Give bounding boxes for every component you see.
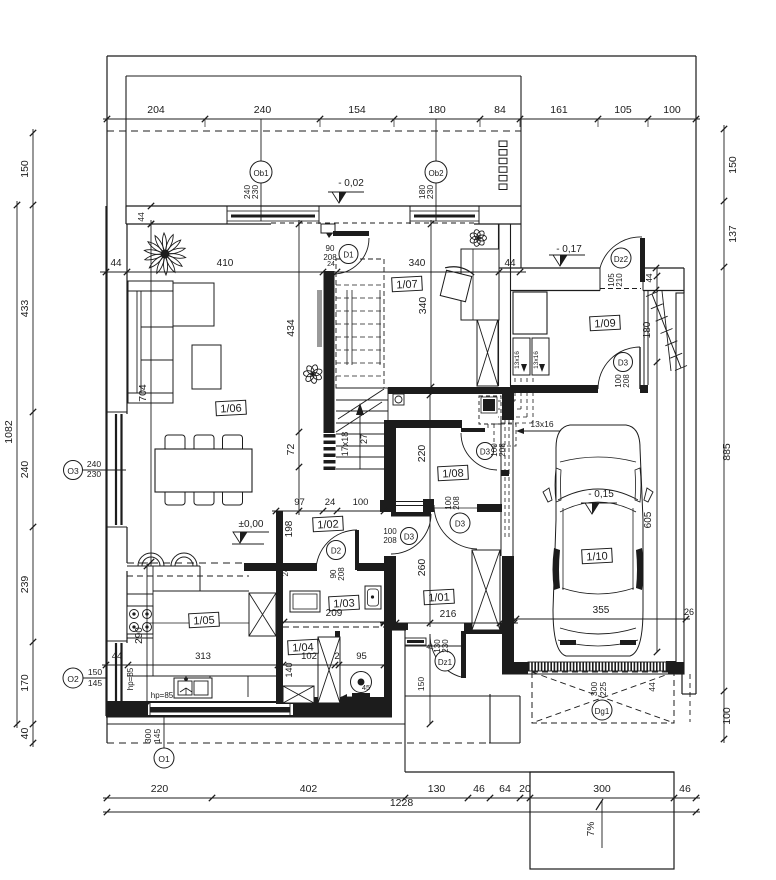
- tall shaft near 1/04: [318, 637, 340, 703]
- svg-text:1/07: 1/07: [396, 278, 418, 291]
- room label 1/05: [189, 612, 220, 628]
- svg-text:402: 402: [300, 783, 318, 795]
- svg-text:230: 230: [441, 639, 450, 653]
- door D2 hall to bathroom: [316, 530, 359, 581]
- svg-text:150: 150: [19, 160, 31, 178]
- door D3 boiler room 1/09 to garage: [598, 347, 640, 389]
- svg-text:D1: D1: [343, 251, 354, 260]
- svg-text:- 0,02: - 0,02: [338, 178, 364, 189]
- svg-text:hp=85: hp=85: [151, 691, 174, 700]
- svg-text:220: 220: [416, 445, 428, 463]
- svg-text:150: 150: [727, 156, 739, 174]
- svg-text:44: 44: [645, 273, 654, 282]
- vertical dim 704 living room: [137, 220, 154, 566]
- svg-text:230: 230: [87, 469, 101, 479]
- svg-text:72: 72: [285, 444, 297, 456]
- exterior door Dz1 house entrance: [416, 631, 466, 727]
- level marker -0.02: [328, 178, 364, 203]
- ramp rectangle with 7% slope arrow: [530, 772, 674, 869]
- garage east wall: [676, 293, 684, 674]
- level marker -0.15: [581, 489, 617, 514]
- interior dim line 44 410 24 340 44: [100, 258, 526, 275]
- vertical dim 140 at 1/04: [284, 662, 294, 677]
- svg-text:±0,00: ±0,00: [239, 519, 264, 530]
- window balloon O3: [64, 459, 127, 480]
- stairwell wall between living room and stairs: [317, 271, 335, 433]
- wall segment 1/04 partition: [335, 631, 339, 697]
- svg-text:1/06: 1/06: [220, 402, 242, 415]
- svg-text:- 0,15: - 0,15: [588, 489, 614, 500]
- toilet in 1/04 area: [341, 672, 372, 703]
- svg-text:D3: D3: [455, 520, 466, 529]
- svg-text:210: 210: [615, 273, 624, 287]
- svg-text:1/10: 1/10: [586, 550, 608, 563]
- svg-text:44: 44: [647, 682, 657, 692]
- door D3 corridor to room 1/01 second: [434, 496, 477, 549]
- svg-text:44: 44: [136, 212, 146, 222]
- svg-text:220: 220: [151, 783, 169, 795]
- svg-text:313: 313: [195, 651, 211, 662]
- svg-text:704: 704: [137, 384, 149, 402]
- svg-text:17x18: 17x18: [340, 432, 350, 457]
- dim 97 24 100 near hall: [272, 497, 388, 514]
- garage south wall stubs and door: [502, 662, 684, 674]
- north exterior wall with windows Ob1 Ob2: [126, 206, 521, 224]
- svg-text:137: 137: [727, 225, 739, 243]
- washbasin in 1/03: [365, 586, 381, 609]
- south exterior wall with window O1: [106, 701, 392, 717]
- svg-text:46: 46: [679, 783, 691, 795]
- svg-text:13x16: 13x16: [533, 351, 540, 369]
- svg-text:340: 340: [409, 258, 426, 269]
- svg-text:208: 208: [452, 496, 461, 510]
- svg-text:145: 145: [88, 678, 102, 688]
- svg-text:150: 150: [88, 667, 102, 677]
- svg-text:64: 64: [499, 783, 511, 795]
- corner sofa in living room: [128, 281, 214, 403]
- svg-text:204: 204: [147, 104, 165, 116]
- svg-text:340: 340: [417, 297, 429, 315]
- west exterior wall with windows O2 O3: [106, 206, 127, 716]
- svg-text:145: 145: [152, 729, 162, 743]
- svg-text:1/05: 1/05: [193, 614, 215, 627]
- coffee table: [192, 345, 221, 389]
- car in garage: [543, 425, 653, 656]
- svg-text:44: 44: [112, 651, 123, 662]
- bathroom 1/03 and 1/01 west wall: [384, 557, 396, 623]
- svg-text:84: 84: [494, 104, 506, 116]
- svg-text:150: 150: [416, 677, 426, 691]
- svg-text:O3: O3: [67, 466, 79, 476]
- svg-text:605: 605: [643, 511, 654, 528]
- dim 355 garage door: [512, 605, 690, 622]
- left dimension chain: [19, 129, 36, 747]
- svg-text:1082: 1082: [3, 420, 15, 444]
- wall between corridor 1/08 and room 1/01 with door posts: [380, 420, 502, 623]
- svg-text:Ob1: Ob1: [253, 169, 269, 178]
- chimney vent squares column: [499, 141, 507, 190]
- bottom overall 1228 dimension: [103, 797, 700, 815]
- kitchen stove with burners: [127, 566, 153, 676]
- svg-text:1/08: 1/08: [442, 467, 464, 480]
- svg-text:130: 130: [428, 783, 446, 795]
- svg-text:198: 198: [284, 520, 295, 537]
- svg-text:D3: D3: [404, 533, 415, 542]
- window balloon O2: [63, 667, 106, 688]
- bathtub in bathroom 1/03: [290, 591, 320, 612]
- svg-text:161: 161: [550, 104, 568, 116]
- svg-text:24: 24: [384, 609, 396, 620]
- kitchen living room dashed divider with bar stools: [127, 563, 249, 576]
- site boundary outline: [107, 56, 696, 772]
- svg-text:170: 170: [19, 674, 31, 692]
- right dimension chain: [721, 125, 739, 743]
- svg-text:- 0,17: - 0,17: [556, 244, 582, 255]
- svg-text:29: 29: [501, 609, 513, 620]
- svg-text:240: 240: [19, 461, 31, 479]
- svg-text:1/01: 1/01: [428, 591, 450, 604]
- shaft next to kitchen: [249, 593, 276, 636]
- svg-text:46: 46: [473, 783, 485, 795]
- dim 209 bathroom: [280, 608, 388, 625]
- hp85 kitchen texts: [126, 667, 174, 700]
- plant large top left: [144, 233, 185, 275]
- room label 1/01: [424, 589, 455, 605]
- staircase with flights: [324, 259, 405, 470]
- room label 1/09: [590, 315, 621, 331]
- kitchen lower counter with sink: [127, 623, 283, 698]
- desk and chair in 1/07: [438, 249, 499, 320]
- room label 1/02: [313, 516, 344, 532]
- svg-text:1228: 1228: [390, 797, 414, 809]
- svg-text:D3: D3: [618, 359, 629, 368]
- kitchen peninsula counter with bar stools: [127, 553, 249, 591]
- wall between 1/07 and 1/09 boiler room: [499, 224, 515, 662]
- level marker -0.17: [549, 244, 585, 266]
- entry closet wall stub with D1: [321, 224, 335, 238]
- shaft under kitchen wall: [283, 686, 314, 703]
- svg-text:260: 260: [416, 559, 428, 577]
- exterior door Dz2 boiler room: [600, 237, 659, 293]
- svg-text:95: 95: [356, 651, 367, 662]
- svg-text:100: 100: [353, 497, 369, 508]
- vertical dim 290 kitchen: [134, 562, 150, 709]
- svg-text:27: 27: [359, 434, 369, 444]
- svg-text:180: 180: [428, 104, 446, 116]
- door D3 corridor to garage zone: [461, 428, 509, 476]
- svg-text:Dz1: Dz1: [438, 658, 453, 667]
- svg-text:105: 105: [614, 104, 632, 116]
- svg-text:D2: D2: [331, 547, 342, 556]
- svg-text:885: 885: [721, 443, 733, 461]
- svg-text:13x16: 13x16: [530, 419, 553, 429]
- window balloon Ob2: [417, 119, 447, 221]
- window balloon Ob1: [242, 119, 272, 221]
- svg-text:230: 230: [425, 185, 435, 199]
- svg-text:hp=85: hp=85: [126, 667, 135, 690]
- vertical dim 340 room 1/07: [417, 220, 434, 391]
- svg-text:239: 239: [19, 576, 31, 594]
- room label 1/07: [392, 276, 423, 292]
- svg-text:26: 26: [684, 607, 694, 617]
- svg-text:13x16: 13x16: [514, 351, 521, 369]
- room label 1/03: [329, 595, 360, 611]
- svg-text:24: 24: [327, 261, 335, 268]
- vertical dim 180 and 605 garage: [642, 268, 660, 655]
- 13x16 duct label with arrow: [516, 419, 560, 434]
- svg-text:44: 44: [110, 258, 122, 269]
- svg-text:209: 209: [326, 608, 343, 619]
- svg-text:290: 290: [134, 627, 145, 644]
- duct channels dashed from boiler: [479, 378, 533, 446]
- svg-text:1/09: 1/09: [594, 317, 616, 330]
- room 1/09 south wall with D3 door to garage: [510, 290, 648, 393]
- svg-text:240: 240: [87, 459, 101, 469]
- plant in room 1/07: [469, 229, 486, 247]
- svg-text:Dz2: Dz2: [614, 255, 629, 264]
- svg-text:300: 300: [593, 783, 611, 795]
- dim 44 313 2 kitchen and 102 2 95: [102, 651, 388, 668]
- vertical dim 198 hall: [281, 520, 295, 576]
- room label 1/06: [216, 400, 247, 416]
- window balloon O1: [143, 716, 174, 768]
- svg-text:1/02: 1/02: [317, 518, 339, 531]
- vertical dim 220 260 corridor: [416, 391, 433, 627]
- svg-text:154: 154: [348, 104, 366, 116]
- svg-text:2: 2: [278, 651, 283, 662]
- svg-text:225: 225: [598, 682, 608, 696]
- svg-text:O2: O2: [67, 674, 79, 684]
- svg-text:140: 140: [284, 662, 294, 677]
- svg-text:100: 100: [383, 527, 397, 536]
- svg-text:44: 44: [504, 258, 516, 269]
- svg-text:240: 240: [254, 104, 272, 116]
- svg-text:208: 208: [337, 567, 346, 581]
- svg-text:O1: O1: [158, 754, 170, 764]
- top dimension chain: [103, 104, 700, 127]
- svg-text:208: 208: [498, 443, 507, 457]
- svg-text:Dg1: Dg1: [595, 707, 610, 716]
- driveway apron dashed with Dg1: [532, 672, 690, 723]
- boiler in room 1/09: [513, 292, 549, 375]
- svg-text:20: 20: [519, 783, 531, 795]
- kitchen east wall and bath walls: [244, 511, 384, 704]
- svg-text:7%: 7%: [586, 822, 597, 837]
- svg-text:40: 40: [19, 728, 31, 740]
- svg-text:355: 355: [593, 605, 610, 616]
- bottom dimension chain: [103, 783, 700, 801]
- svg-text:24: 24: [281, 567, 290, 576]
- svg-text:100: 100: [663, 104, 681, 116]
- svg-text:Ob2: Ob2: [428, 169, 444, 178]
- room label 1/08: [438, 465, 469, 481]
- door D1 entry: [323, 231, 369, 274]
- svg-text:45: 45: [362, 683, 370, 692]
- dim 24 216 29 room 1/01: [380, 609, 518, 626]
- room label 1/10: [582, 548, 613, 564]
- dim 44 north wall top left: [136, 203, 154, 227]
- garage north wall with Dz2 opening: [499, 268, 684, 293]
- garage sectional door hatched band: [502, 661, 684, 674]
- vertical dim 434 and 72: [285, 220, 302, 515]
- svg-text:97: 97: [294, 497, 305, 508]
- svg-text:434: 434: [285, 319, 297, 337]
- dining table with six chairs: [155, 435, 252, 505]
- svg-text:2: 2: [334, 651, 339, 662]
- level marker 0.00: [232, 519, 269, 544]
- door D3 hall to room 1/01: [383, 512, 431, 554]
- room label 1/04: [288, 639, 319, 655]
- svg-text:102: 102: [301, 651, 317, 662]
- svg-text:433: 433: [19, 300, 31, 318]
- svg-text:216: 216: [440, 609, 457, 620]
- svg-text:24: 24: [325, 497, 336, 508]
- chimney shaft in 1/01: [472, 550, 500, 630]
- chimney shaft in 1/07: [477, 319, 498, 386]
- svg-text:90: 90: [326, 244, 335, 253]
- upper floor outline band: [107, 76, 521, 206]
- plant near stairs: [303, 364, 323, 384]
- svg-text:230: 230: [250, 185, 260, 199]
- svg-text:208: 208: [622, 374, 631, 388]
- svg-text:100: 100: [721, 707, 733, 725]
- vestibule band edge: [499, 206, 521, 268]
- corridor north wall with D3 opening to garage zone: [396, 420, 462, 428]
- southeast wall of room 1/01 with Dz1 door opening: [384, 623, 502, 716]
- wall under 1/07 and corridor top: [388, 387, 514, 394]
- svg-text:410: 410: [217, 258, 234, 269]
- svg-text:208: 208: [383, 536, 397, 545]
- svg-text:180: 180: [642, 321, 653, 338]
- left overall 1082 dimension: [3, 201, 20, 728]
- attic ladder in garage niche: [646, 291, 687, 371]
